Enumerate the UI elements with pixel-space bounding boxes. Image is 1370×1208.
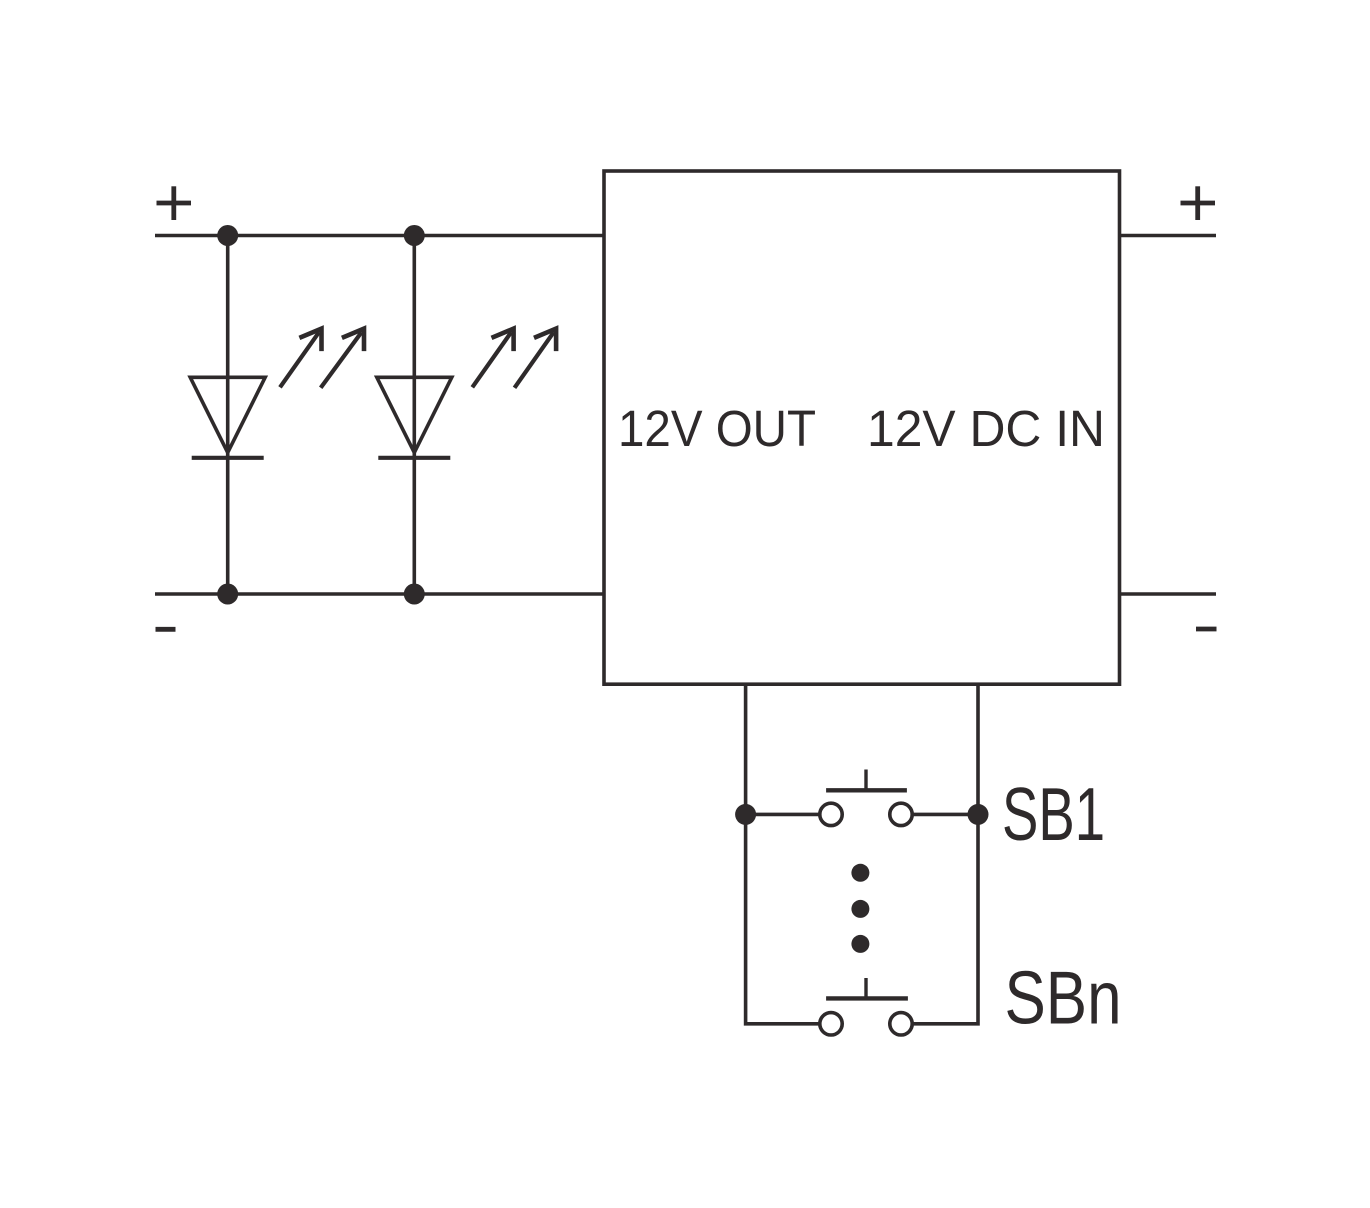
node: junction dot SB1 left bbox=[735, 804, 756, 825]
LED D2 cathode bar bbox=[378, 456, 450, 460]
ellipsis dot 1 bbox=[851, 864, 869, 882]
wire: LED1 branch vertical bbox=[226, 236, 230, 595]
wire: SB1 row right segment bbox=[910, 813, 978, 817]
push-button SB1 actuator stem bbox=[864, 770, 867, 791]
plus terminal left bbox=[157, 186, 192, 220]
wire: left lead from box bottom to SBn row bbox=[746, 684, 821, 1024]
node: junction dot SB1 right bbox=[968, 804, 989, 825]
push-button SB1 contact right bbox=[890, 803, 912, 825]
LED D2 light arrow 1 bbox=[472, 329, 513, 388]
wire: LED2 branch vertical bbox=[412, 236, 416, 595]
ellipsis dot 3 bbox=[851, 935, 869, 953]
LED D1 light arrow 2 bbox=[321, 329, 364, 388]
LED D2 light arrow 2 bbox=[515, 329, 557, 388]
push-button SBn actuator stem bbox=[864, 978, 867, 998]
wire: bottom rail left segment bbox=[155, 592, 606, 596]
minus terminal right bbox=[1196, 627, 1217, 632]
push-button SBn actuator bar bbox=[826, 996, 908, 1000]
push-button SB1 contact left bbox=[820, 803, 842, 825]
minus terminal left bbox=[156, 627, 176, 632]
control box U1 (12V OUT / 12V DC IN) bbox=[604, 171, 1120, 684]
wire: right lead from box bottom to SBn row bbox=[912, 684, 978, 1024]
plus terminal right bbox=[1181, 186, 1216, 220]
push-button SBn contact right bbox=[890, 1013, 912, 1035]
LED D2 triangle bbox=[377, 377, 452, 452]
push-button SBn contact left bbox=[820, 1013, 842, 1035]
wire: top rail left segment bbox=[155, 234, 606, 238]
node: junction dot LED2 bottom bbox=[404, 584, 425, 605]
ellipsis dot 2 bbox=[851, 900, 869, 918]
node: junction dot LED1 bottom bbox=[217, 584, 238, 605]
svg-text:SBn: SBn bbox=[1005, 955, 1122, 1039]
svg-text:SB1: SB1 bbox=[1002, 772, 1105, 856]
LED D1 cathode bar bbox=[192, 456, 264, 460]
svg-text:12V OUT: 12V OUT bbox=[618, 400, 816, 457]
wire: SB1 row left segment bbox=[746, 813, 822, 817]
wire: bottom rail right segment bbox=[1119, 592, 1217, 596]
node: junction dot LED1 top bbox=[217, 225, 238, 246]
svg-text:12V DC IN: 12V DC IN bbox=[867, 400, 1105, 457]
push-button SB1 actuator bar bbox=[826, 788, 907, 792]
LED D1 triangle bbox=[190, 377, 265, 452]
LED D1 light arrow 1 bbox=[280, 329, 322, 388]
wire: top rail right segment bbox=[1119, 234, 1217, 238]
node: junction dot LED2 top bbox=[404, 225, 425, 246]
